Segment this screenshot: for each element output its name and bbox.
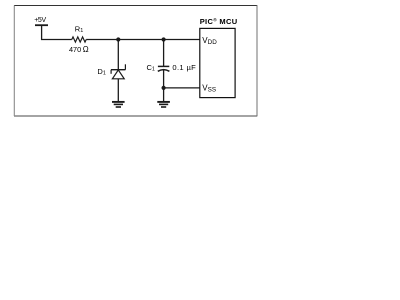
svg-text:0.1 µF: 0.1 µF — [172, 63, 196, 72]
svg-text:470Ω: 470Ω — [69, 45, 89, 54]
wire — [86, 39, 200, 41]
ground — [112, 102, 125, 107]
node junction rail/D1 — [116, 37, 120, 41]
wire — [163, 40, 165, 67]
wire — [117, 40, 119, 70]
svg-text:PIC® MCU: PIC® MCU — [200, 17, 238, 26]
wire — [164, 87, 200, 89]
capacitor C1 — [158, 66, 170, 71]
resistor R1 — [72, 37, 86, 42]
power +5V — [34, 17, 48, 25]
wire — [163, 88, 165, 102]
ic PIC MCU — [200, 28, 235, 97]
wire — [117, 79, 119, 102]
ground — [157, 102, 170, 107]
zener diode D1 — [111, 64, 125, 79]
wire — [163, 70, 165, 88]
svg-text:+5V: +5V — [34, 17, 46, 24]
node junction rail/C1 — [162, 37, 166, 41]
node junction C1/Vss — [162, 86, 166, 90]
wire — [42, 25, 72, 39]
